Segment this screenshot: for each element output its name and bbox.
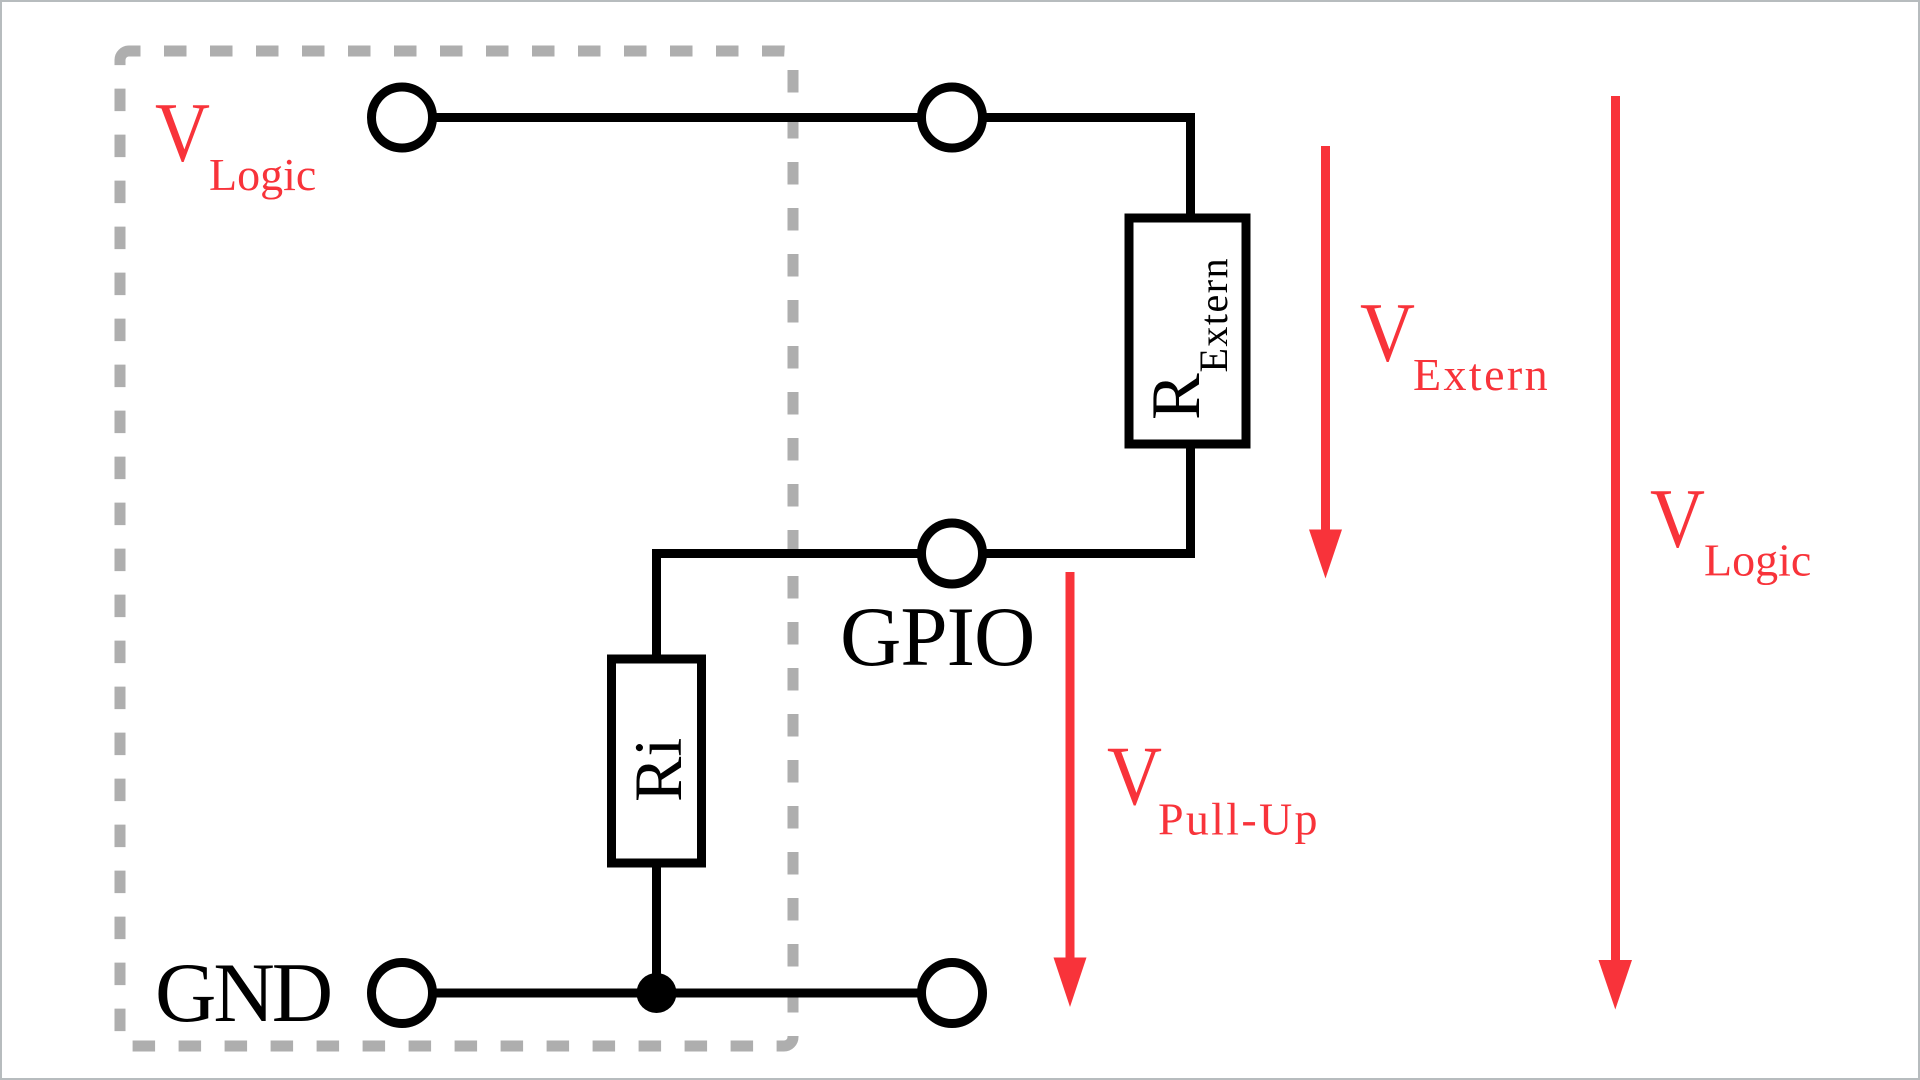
resistor R_Extern [1129, 218, 1246, 444]
resistor Ri [612, 659, 702, 863]
svg-text:Pull-Up: Pull-Up [1158, 794, 1320, 845]
arrow V_Logic (right) [1599, 96, 1633, 1010]
wire: VLogic terminal to top pin [435, 113, 918, 122]
svg-text:GPIO: GPIO [840, 590, 1034, 684]
wire: R_Extern bottom to GPIO node [986, 444, 1191, 554]
svg-text:Logic: Logic [209, 149, 316, 200]
svg-text:V: V [1360, 286, 1415, 380]
arrow V_Pull-Up [1054, 572, 1087, 1007]
svg-text:V: V [1650, 472, 1705, 566]
svg-text:Ri: Ri [620, 738, 696, 802]
terminal top pin (top middle) [922, 87, 983, 148]
wire: Ri bottom to GND rail [652, 863, 661, 993]
terminal bottom pin (bottom right) [922, 963, 983, 1024]
terminal VLogic (top left) [372, 87, 433, 148]
arrow V_Extern [1309, 146, 1342, 579]
junction dot on GND rail [637, 973, 677, 1013]
svg-text:V: V [155, 86, 210, 180]
svg-text:GND: GND [155, 946, 330, 1040]
wire: GPIO node to Ri top [657, 554, 919, 660]
svg-text:R: R [1138, 373, 1215, 420]
svg-text:Extern: Extern [1413, 349, 1550, 400]
IC boundary dashed box [120, 51, 793, 1046]
wire: top pin to R_Extern top [986, 118, 1191, 219]
svg-text:V: V [1107, 729, 1162, 823]
terminal GPIO [922, 523, 983, 584]
svg-text:Extern: Extern [1191, 257, 1236, 373]
wire: GND rail [435, 989, 918, 998]
svg-text:Logic: Logic [1704, 535, 1811, 586]
terminal GND (bottom left) [372, 963, 433, 1024]
